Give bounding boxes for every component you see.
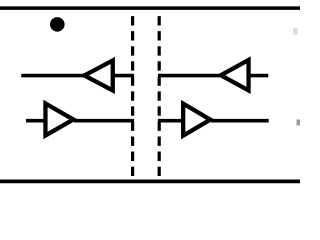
isolation barrier dashed line (left) — [131, 16, 134, 181]
clipped pin stub at right edge — [297, 120, 301, 126]
buffer B output stage (channel B right, points right) — [181, 100, 215, 139]
wire: buffer A input stage base to channel A input pin — [248, 74, 268, 78]
wire: buffer B output stage apex to channel B output pin — [211, 119, 269, 123]
package outline bottom edge — [0, 179, 300, 183]
wire: right barrier line to buffer B output stage base — [158, 119, 184, 123]
pin 1 dot — [50, 17, 65, 32]
buffer A input stage (channel A right, points left) — [216, 56, 250, 94]
wire: channel B input pin to buffer B base — [26, 119, 46, 123]
isolation barrier dashed line (right) — [158, 16, 161, 181]
clipped label fragment at right edge (faint) — [293, 28, 298, 35]
buffer B (channel B left, points right) — [43, 100, 77, 139]
wire: buffer A base to left barrier line — [112, 74, 134, 78]
wire: buffer B apex to left barrier line — [74, 119, 134, 123]
buffer A (channel A left, points left) — [80, 57, 115, 94]
wire: channel A output pin to buffer A apex — [21, 74, 84, 78]
package outline top edge — [0, 6, 300, 10]
wire: right barrier line to buffer A input stage apex — [158, 74, 220, 78]
